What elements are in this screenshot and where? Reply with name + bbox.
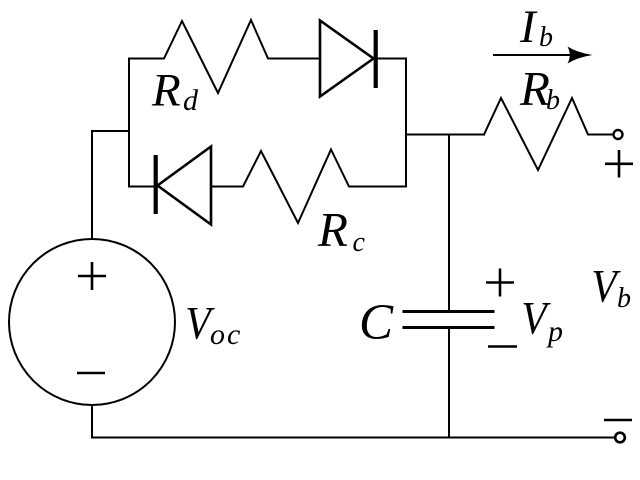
svg-text:C: C [359,295,394,351]
svg-text:p: p [546,315,563,348]
svg-text:b: b [617,283,631,314]
svg-text:b: b [546,85,560,116]
svg-text:c: c [353,227,366,258]
svg-text:R: R [317,202,348,257]
svg-text:oc: oc [210,318,242,351]
svg-text:R: R [151,65,181,117]
svg-text:I: I [519,1,538,53]
svg-text:d: d [183,84,199,117]
svg-text:b: b [539,22,553,53]
